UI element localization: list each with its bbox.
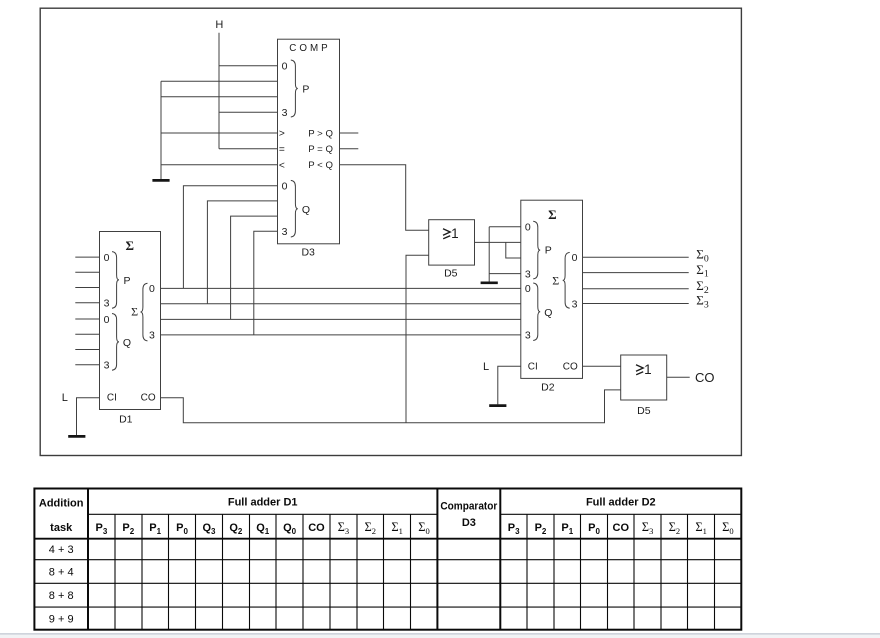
svg-text:Comparator: Comparator [440,501,498,513]
svg-text:L: L [62,392,68,404]
svg-text:CI: CI [107,393,117,404]
svg-text:P > Q: P > Q [308,129,333,140]
svg-text:Q: Q [302,204,310,216]
wire rail to OR D5 input 2 [406,255,429,423]
svg-text:3: 3 [525,268,531,280]
wire D2 CO to OR D5 input 1 [583,365,621,367]
wire H to D3 pin P3 [219,111,278,113]
wire ground vertical at D2 P [488,227,490,282]
svg-text:8 + 4: 8 + 4 [49,567,74,579]
svg-text:D3: D3 [462,517,476,529]
svg-text:Σ: Σ [126,238,135,253]
svg-text:Q: Q [123,337,131,349]
wire D3 output P>Q stub [340,132,359,134]
wire sum bus bit 3 [161,334,521,336]
wire D3 output P=Q stub [340,148,359,150]
svg-text:8 + 8: 8 + 8 [49,590,74,602]
svg-text:0: 0 [282,61,288,73]
or-gate D5 carry [621,355,667,417]
wire D2 sum1 output [583,272,689,274]
svg-text:1: 1 [644,362,652,377]
svg-text:3: 3 [104,360,110,372]
wire L to D2 CI [498,366,521,404]
wire D3 output P<Q to OR D5 input 1 [340,165,429,231]
wire to D2 P0 [489,226,521,228]
svg-text:D1: D1 [119,413,133,425]
wire D2 sum3 output [583,303,689,305]
svg-text:L: L [483,361,489,373]
svg-text:=: = [279,144,285,155]
svg-text:CO: CO [695,370,715,385]
wire ground to D3 pin P1 [161,80,278,82]
svg-text:Addition: Addition [39,498,84,510]
svg-text:3: 3 [572,298,578,310]
svg-text:Σ: Σ [552,274,559,288]
svg-text:CO: CO [563,362,578,373]
wire branch to D2 P2 [506,242,521,258]
wire ground to D3 pin P2 [161,96,278,98]
wire sum bus bit 2 [161,318,521,320]
svg-text:P: P [123,275,130,287]
wire D5 output to D2 P1 [475,241,521,243]
wire sum bus bit 1 [161,303,521,305]
svg-text:<: < [279,160,285,171]
svg-text:Full adder D2: Full adder D2 [586,497,656,509]
ground [68,435,85,438]
wire D1 input Q2 stub [75,349,99,351]
wire CO output [667,376,690,378]
wire D1 input Q1 stub [75,333,99,335]
svg-text:D2: D2 [541,381,555,393]
wire D2 sum0 output [583,256,689,258]
svg-text:4 + 3: 4 + 3 [49,544,74,556]
wire L to D1 CI [77,398,100,436]
wire D1 input Q0 stub [75,318,99,320]
svg-text:3: 3 [282,226,288,238]
svg-text:CO: CO [308,522,325,534]
wire D1 sum2 to D3 Q2 [231,216,278,319]
svg-text:Σ: Σ [548,207,557,222]
svg-text:0: 0 [525,283,531,295]
wire ground to D3 pin < [161,164,278,166]
svg-text:D5: D5 [637,405,651,417]
svg-text:Q: Q [544,307,552,319]
wire to D2 P3 [489,273,521,275]
ground [489,404,506,407]
or-gate D5 [429,220,475,280]
svg-text:0: 0 [149,283,155,295]
wire D1 input P0 stub [75,256,99,258]
svg-text:task: task [50,522,73,534]
wire sum bus bit 0 [161,287,521,289]
svg-text:0: 0 [525,222,531,234]
svg-text:Full adder D1: Full adder D1 [228,497,298,509]
wire D1 input Q3 stub [75,364,99,366]
svg-text:9 + 9: 9 + 9 [49,613,74,625]
wire D1 sum3 to D3 Q3 [254,231,278,335]
ground [481,281,498,284]
svg-text:>: > [279,129,285,140]
svg-text:0: 0 [282,181,288,193]
svg-text:3: 3 [525,330,531,342]
full adder D1 [100,232,161,426]
svg-text:0: 0 [572,252,578,264]
svg-text:CO: CO [141,393,156,404]
wire D1 input P3 stub [75,302,99,304]
svg-text:0: 0 [104,314,110,326]
comparator D3 [278,39,340,258]
wire ground to D3 pin > [161,132,278,134]
svg-text:1: 1 [451,226,459,241]
svg-text:P < Q: P < Q [308,160,333,171]
ground [152,179,169,182]
svg-text:3: 3 [149,330,155,342]
wire D1 CO to OR gates rail [161,390,621,423]
svg-text:0: 0 [104,252,110,264]
full adder D2 [521,200,583,393]
results table [34,489,741,630]
wire H to D3 pin P0 [219,65,278,67]
svg-text:D5: D5 [444,268,458,280]
svg-text:CO: CO [613,522,630,534]
svg-text:COMP: COMP [289,43,330,54]
wire H vertical [218,33,220,149]
wire ground vertical at D3 [160,81,162,179]
wire D1 input P2 stub [75,287,99,289]
wire D1 sum1 to D3 Q1 [207,201,277,304]
svg-text:P = Q: P = Q [308,144,333,155]
svg-text:D3: D3 [301,247,315,259]
svg-text:P: P [302,84,309,96]
svg-text:Σ: Σ [131,305,138,319]
svg-text:H: H [215,19,223,31]
wire D1 input P1 stub [75,271,99,273]
svg-text:CI: CI [528,362,538,373]
svg-text:P: P [545,245,552,257]
svg-text:3: 3 [282,107,288,119]
wire H to D3 pin = [219,148,278,150]
svg-text:3: 3 [104,298,110,310]
wire D2 sum2 output [583,288,689,290]
wire D1 sum0 to D3 Q0 [183,186,277,289]
